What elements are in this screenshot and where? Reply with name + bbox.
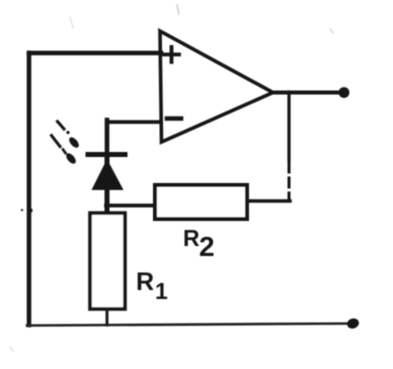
svg-text:R: R xyxy=(136,268,154,296)
wire: R2 right lead xyxy=(247,199,290,202)
wire: summing node to R2 left lead xyxy=(106,204,155,208)
wire: bottom rail xyxy=(27,324,350,326)
terminal: output dot xyxy=(339,87,350,98)
scan smudges (decorative) xyxy=(177,5,179,14)
wire: feedback drop from output xyxy=(287,92,290,201)
label R1 xyxy=(136,268,168,304)
wire: R1 bottom lead xyxy=(106,309,109,325)
terminal: bottom-right dot xyxy=(346,317,361,330)
wire: op-amp output xyxy=(272,91,343,95)
resistor R1 xyxy=(90,213,125,309)
label R2 xyxy=(183,225,215,262)
light arrow 2 xyxy=(52,136,78,166)
svg-text:2: 2 xyxy=(199,231,215,262)
photodiode D1 xyxy=(88,155,125,214)
wire: inverting input from photodiode cathode xyxy=(107,120,160,152)
resistor R2 xyxy=(155,185,247,219)
svg-text:R: R xyxy=(183,225,200,251)
wire: left vertical rail xyxy=(27,53,32,325)
wire: top run to non-inverting input xyxy=(29,51,161,56)
svg-text:1: 1 xyxy=(155,278,168,304)
op-amp U1 xyxy=(160,31,273,142)
light arrow 1 xyxy=(58,122,81,150)
